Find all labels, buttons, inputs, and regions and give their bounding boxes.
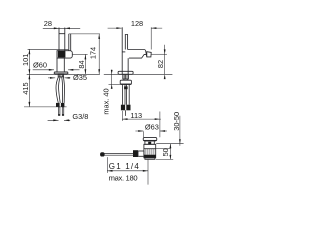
svg-text:G3/8: G3/8 [72,112,88,121]
svg-text:174: 174 [88,47,97,59]
hose pipes front [122,84,129,104]
svg-text:82: 82 [156,60,165,68]
ext 84 [73,53,88,55]
pipe connector [124,86,128,89]
escutcheon midline [54,72,67,74]
G3/8 label arrows [48,119,71,121]
svg-text:28: 28 [44,19,52,28]
svg-text:max. 180: max. 180 [109,173,138,182]
flange bottom edge [144,140,156,142]
lever rod front [125,35,127,50]
clamp connector [138,151,144,156]
O35 arrows [48,77,70,79]
escutcheon front [118,71,133,74]
aerator tip cap [147,52,151,57]
svg-text:415: 415 [21,82,30,94]
dim 50 [169,144,171,160]
rod knob [100,152,105,156]
ext 128 right / spout tip [150,27,152,49]
svg-text:Ø35: Ø35 [73,73,87,82]
ext max180 right [147,160,149,185]
dim 128 line [108,27,163,29]
deck line left view [27,73,100,75]
nut bottom edge [120,83,131,85]
rod clamp dark [133,150,138,157]
spout riser channel [69,34,71,51]
spout housing bottom [129,54,147,58]
handle assembly outline [57,51,72,58]
spout top [128,50,147,57]
svg-text:max. 40: max. 40 [102,88,111,114]
clamp nut [120,80,131,84]
svg-text:128: 128 [131,19,143,28]
svg-text:50: 50 [161,148,170,156]
neck dark square [148,142,151,145]
drain bottom lip [145,158,155,160]
O63 ext left [142,131,144,137]
body right edge [127,58,129,74]
svg-text:Ø63: Ø63 [145,123,159,132]
ext nut bottom [109,83,121,85]
dark band [144,155,156,158]
dim 84 [84,54,86,74]
handle dark fill [58,51,66,58]
ext top for 174 [69,33,100,35]
dim 113 [122,118,161,120]
ext max180 left [106,157,108,173]
deck line right view [104,73,173,75]
ext flange seat [156,143,183,145]
thread hatch [146,149,154,155]
ext 128 left / body left edge [121,27,123,74]
hoses left view [56,77,58,103]
ext 113 left [121,111,123,121]
svg-text:Ø60: Ø60 [33,61,47,70]
thread tails G3/8 [58,107,59,116]
svg-text:G1 1/4: G1 1/4 [109,162,140,171]
escutcheon [54,72,68,74]
drain flange [143,137,157,141]
dim 174 [98,34,100,74]
30-50 dim [179,116,181,146]
ext thread top [156,148,171,150]
svg-text:30-50: 30-50 [172,112,181,131]
drain body [144,144,156,158]
O63 dim arrows [135,130,167,132]
O60 arrows [33,69,80,71]
dim 415 [28,74,30,107]
pull rod [104,153,133,155]
shared ext right 113/O63 [159,112,161,138]
dim 28 line [43,27,80,29]
shank neck [124,79,127,80]
hose fittings front [121,105,131,111]
svg-text:84: 84 [77,60,86,68]
svg-text:101: 101 [21,54,30,66]
tail front [124,110,126,116]
shank front [123,74,129,79]
body column [57,58,64,72]
hose fittings [56,103,64,107]
ext + lever rod side view [59,28,65,51]
ext line hose end [24,106,67,108]
handle ledge left of rod [122,51,125,53]
82 ext at outlet [151,53,167,55]
ext thread end [156,158,173,160]
dim 82 [164,45,166,75]
max40 dim [111,70,113,89]
drain neck [145,141,154,144]
max180 dim [107,170,148,172]
dim 28 arrows [54,27,70,29]
101 ext line [28,48,69,50]
shank left view [58,74,63,77]
dim 101 [28,49,30,74]
svg-text:113: 113 [130,111,142,120]
